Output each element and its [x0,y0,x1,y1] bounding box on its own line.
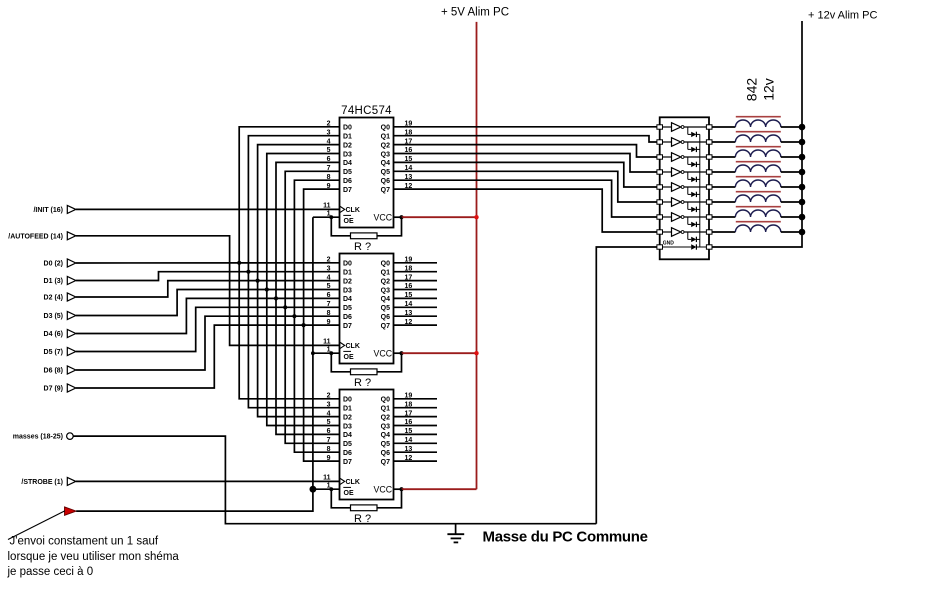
driver flyback diode 3 [688,157,700,167]
driver GND pad [657,245,663,249]
svg-text:8: 8 [327,446,331,453]
relay coil L1 [712,117,802,127]
wire data bus D2 vertical [258,145,340,417]
connector D2 (4) [44,293,76,302]
svg-text:9: 9 [327,183,331,190]
svg-text:D4: D4 [343,160,352,167]
wire U1 VCC stub [394,216,402,218]
svg-text:/STROBE (1): /STROBE (1) [21,479,63,486]
node D3 bus junction [265,287,269,291]
node +12v rail junction 4 [799,169,806,176]
svg-text:D4: D4 [343,296,352,303]
driver flyback diode 6 [688,202,700,212]
annotation pointer line [8,511,65,540]
svg-text:4: 4 [327,274,331,281]
annotation text J envoi [7,536,180,579]
connector D7 (9) [44,384,76,393]
+12v rail wire [709,21,802,247]
svg-text:R ?: R ? [354,377,371,389]
svg-text:Q5: Q5 [381,169,390,176]
svg-text:D6: D6 [343,314,352,321]
wire U3 Q1 stub [394,407,438,409]
svg-text:Q2: Q2 [381,414,390,421]
wire U3 Q0 stub [394,398,438,400]
svg-text:+ 5V Alim PC: + 5V Alim PC [441,7,509,19]
svg-text:7: 7 [327,301,331,308]
svg-text:5: 5 [327,283,331,290]
connector D6 (8) [44,366,76,375]
svg-text:D1: D1 [343,406,352,413]
svg-text:7: 7 [327,437,331,444]
resistor R2 (R ?) pullup [331,353,401,389]
relay coil L3 [712,147,802,157]
driver channel 8 input pad [657,230,663,234]
wire data bus D6 vertical [294,180,339,452]
driver channel 4 output pad [706,170,712,174]
connector D5 (7) [44,348,76,357]
node +12v rail junction 3 [799,154,806,161]
svg-text:Q6: Q6 [381,450,390,457]
node U2 VCC junction [399,351,403,355]
wire data bus D4 vertical [276,162,340,434]
svg-text:+ 12v Alim PC: + 12v Alim PC [808,10,877,22]
wire U1 VCC to +5V net [402,216,477,218]
node +12v rail junction 5 [799,184,806,191]
svg-text:/AUTOFEED (14): /AUTOFEED (14) [8,233,63,240]
driver flyback diode 1 [688,127,700,137]
ground symbol [447,524,464,543]
wire U2 VCC stub [394,352,402,354]
svg-text:6: 6 [327,292,331,299]
svg-text:2: 2 [327,121,331,128]
svg-text:D2: D2 [343,414,352,421]
connector D4 (6) [44,330,76,339]
resistor R1 (R ?) pullup [331,217,401,253]
driver buffer 6 [663,198,707,207]
svg-text:OE: OE [344,218,354,225]
node OE bus at U2 [311,351,315,355]
relay coil L8 [712,222,802,232]
svg-text:3: 3 [327,265,331,272]
svg-text:CLK: CLK [346,207,360,214]
relay coil L7 [712,207,802,217]
node +12v rail junction 8 [799,229,806,236]
svg-text:6: 6 [327,428,331,435]
svg-text:Q7: Q7 [381,323,390,330]
svg-text:Q4: Q4 [381,432,390,439]
svg-text:OE: OE [344,354,354,361]
wire U1 Q3 to driver input 4 [394,154,658,173]
node +5V rail junction U2 [474,351,478,355]
wire U3 VCC to +5V net [402,488,477,490]
svg-text:4: 4 [327,410,331,417]
svg-text:Q0: Q0 [381,125,390,132]
wire U3 Q4 stub [394,433,438,435]
driver channel 8 output pad [706,230,712,234]
svg-text:D6 (8): D6 (8) [44,368,63,375]
svg-text:D7: D7 [343,459,352,466]
svg-text:11: 11 [323,338,331,345]
svg-text:Q4: Q4 [381,296,390,303]
svg-text:9: 9 [327,455,331,462]
svg-text:7: 7 [327,165,331,172]
svg-text:D7: D7 [343,323,352,330]
connector D0 (2) [44,259,76,268]
svg-text:D3: D3 [343,287,352,294]
svg-text:4: 4 [327,138,331,145]
wire data bus D5 vertical [285,171,339,443]
svg-text:D3: D3 [343,423,352,430]
driver channel 3 output pad [706,155,712,159]
wire /STROBE to U3 CLK [76,480,340,482]
svg-text:D5: D5 [343,169,352,176]
svg-text:VCC: VCC [374,213,393,223]
svg-text:8: 8 [327,174,331,181]
svg-text:Q6: Q6 [381,178,390,185]
wire U2 Q3 stub [394,289,438,291]
node OE bus at U3 (big junction) [310,486,317,493]
svg-text:D1: D1 [343,134,352,141]
svg-text:Q0: Q0 [381,397,390,404]
wire OE control line [76,217,313,511]
svg-text:Q1: Q1 [381,134,390,141]
driver channel 3 input pad [657,155,663,159]
svg-text:VCC: VCC [374,485,393,495]
driver flyback diode 4 [688,172,700,182]
svg-text:D0: D0 [343,397,352,404]
wire U3 Q6 stub [394,451,438,453]
wire D6 port to U2 D6 [76,316,340,370]
driver U4 octal buffer box [660,117,709,259]
svg-text:GND: GND [663,241,675,247]
svg-text:5: 5 [327,147,331,154]
wire U1 Q6 to driver input 7 [394,180,658,217]
driver buffer 5 [663,183,707,192]
svg-text:D2: D2 [343,278,352,285]
wire D5 port to U2 D5 [76,307,340,351]
IC U3 74HC574 [323,390,412,500]
node +12v rail junction 2 [799,139,806,146]
node D1 bus junction [246,270,250,274]
svg-text:je passe ceci à 0: je passe ceci à 0 [7,566,94,578]
driver COM output pad [706,245,712,249]
svg-text:Q3: Q3 [381,151,390,158]
svg-text:CLK: CLK [346,343,360,350]
wire U2 Q4 stub [394,297,438,299]
wire OE bus to U2 OE pin [313,352,340,354]
driver substrate diode [663,244,707,249]
svg-text:J'envoi constament un 1 sauf: J'envoi constament un 1 sauf [10,536,159,548]
wire D1 port to U2 D1 [76,272,340,281]
node D6 bus junction [292,314,296,318]
wire D7 port to U2 D7 [76,325,340,388]
wire data bus D1 vertical [248,136,339,408]
wire U1 Q7 to driver input 8 [394,189,658,232]
node U1 VCC junction [399,215,403,219]
driver buffer 3 [663,153,707,162]
wire U1 Q0 to driver input 1 [394,126,658,128]
svg-text:D0: D0 [343,125,352,132]
driver buffer 4 [663,168,707,177]
svg-text:3: 3 [327,129,331,136]
svg-text:2: 2 [327,393,331,400]
IC U2 74HC574 [323,254,412,364]
driver channel 2 output pad [706,140,712,144]
svg-text:8: 8 [327,310,331,317]
wire U2 Q7 stub [394,324,438,326]
driver buffer 7 [663,213,707,222]
node U1 OE pullup tap [329,215,333,219]
driver channel 6 input pad [657,200,663,204]
wire D4 port to U2 D4 [76,298,340,333]
connector masses (18-25) [13,433,73,441]
wire U2 Q2 stub [394,280,438,282]
wire U2 VCC to +5V net [402,352,477,354]
node D7 bus junction [302,323,306,327]
wire driver GND to ground rail [596,247,658,524]
svg-text:D6: D6 [343,178,352,185]
driver flyback diode 7 [688,217,700,227]
relay coil L6 [712,192,802,202]
svg-text:Q3: Q3 [381,287,390,294]
node +5V rail junction U1 [474,215,478,219]
node D5 bus junction [283,305,287,309]
svg-text:Q7: Q7 [381,459,390,466]
svg-text:D4: D4 [343,432,352,439]
wire U2 Q1 stub [394,271,438,273]
svg-text:Q6: Q6 [381,314,390,321]
driver buffer 8 [663,228,707,237]
wire U1 Q5 to driver input 6 [394,171,658,202]
+5V net vertical wire [476,22,478,489]
svg-text:Q2: Q2 [381,142,390,149]
driver common diode rail [699,134,701,247]
driver channel 7 output pad [706,215,712,219]
wire U2 Q5 stub [394,306,438,308]
svg-text:D7 (9): D7 (9) [44,386,63,393]
driver flyback diode 2 [688,142,700,152]
relay coil L5 [712,177,802,187]
driver channel 6 output pad [706,200,712,204]
svg-text:R ?: R ? [354,513,371,525]
driver buffer 2 [663,138,707,147]
svg-text:CLK: CLK [346,479,360,486]
node +12v rail junction 7 [799,214,806,221]
driver channel 1 input pad [657,125,663,129]
wire U1 Q2 to driver input 3 [394,145,658,157]
svg-text:9: 9 [327,319,331,326]
svg-text:842: 842 [744,78,760,102]
wire D0 port to U2 D0 [76,262,340,264]
wire U2 Q0 stub [394,262,438,264]
wire U1 Q4 to driver input 5 [394,162,658,187]
node U3 VCC junction [399,487,403,491]
wire data bus D7 vertical [304,189,340,461]
svg-text:D3: D3 [343,151,352,158]
node +12v rail junction 1 [799,124,806,131]
svg-text:2: 2 [327,257,331,264]
wire U3 Q3 stub [394,425,438,427]
svg-text:Q1: Q1 [381,406,390,413]
svg-text:lorsque je veu utiliser mon sh: lorsque je veu utiliser mon shéma [8,551,180,563]
svg-text:D1 (3): D1 (3) [44,278,63,285]
svg-text:11: 11 [323,474,331,481]
node U3 OE pullup tap [329,487,333,491]
connector /AUTOFEED (14) [8,232,76,241]
driver flyback diode 8 [688,232,700,242]
svg-text:R ?: R ? [354,241,371,253]
resistor R3 (R ?) pullup [331,489,401,525]
svg-text:D7: D7 [343,187,352,194]
driver buffer 1 [663,123,707,132]
svg-text:D5: D5 [343,441,352,448]
node D4 bus junction [274,296,278,300]
svg-text:3: 3 [327,401,331,408]
connector /STROBE (1) [21,477,75,486]
wire U3 Q5 stub [394,442,438,444]
svg-text:D2: D2 [343,142,352,149]
svg-text:Q7: Q7 [381,187,390,194]
svg-text:Q0: Q0 [381,261,390,268]
driver channel 5 output pad [706,185,712,189]
svg-text:D1: D1 [343,270,352,277]
svg-text:D0: D0 [343,261,352,268]
svg-text:D5 (7): D5 (7) [44,349,63,356]
connector D1 (3) [44,277,76,286]
svg-text:/INIT (16): /INIT (16) [33,207,63,214]
node D2 bus junction [256,279,260,283]
relay coil L2 [712,132,802,142]
wire U3 VCC stub [394,488,402,490]
svg-text:D0 (2): D0 (2) [44,261,63,268]
wire data bus D3 vertical [267,154,340,426]
svg-text:74HC574: 74HC574 [341,105,392,117]
svg-text:12v: 12v [761,78,777,101]
driver channel 5 input pad [657,185,663,189]
wire U3 Q7 stub [394,460,438,462]
svg-text:Q2: Q2 [381,278,390,285]
svg-text:11: 11 [323,202,331,209]
svg-text:Masse du PC Commune: Masse du PC Commune [483,529,648,546]
svg-text:D4 (6): D4 (6) [44,331,63,338]
wire U3 Q2 stub [394,416,438,418]
driver channel 1 output pad [706,125,712,129]
svg-text:Q3: Q3 [381,423,390,430]
svg-text:D6: D6 [343,450,352,457]
svg-text:D2 (4): D2 (4) [44,295,63,302]
svg-text:Q5: Q5 [381,305,390,312]
wire OE bus to U1 OE pin [313,216,340,218]
IC U1 74HC574 [323,105,412,228]
wire OE bus to U3 OE pin [313,488,340,490]
svg-text:VCC: VCC [374,349,393,359]
connector /INIT (16) [33,205,75,214]
driver channel 4 input pad [657,170,663,174]
node U2 OE pullup tap [329,351,333,355]
wire data bus D0 vertical [239,127,339,399]
svg-text:masses (18-25): masses (18-25) [13,434,63,441]
wire D3 port to U2 D3 [76,290,340,316]
OE control input red arrow [65,507,77,515]
svg-text:OE: OE [344,490,354,497]
driver channel 7 input pad [657,215,663,219]
node +12v rail junction 6 [799,199,806,206]
svg-text:6: 6 [327,156,331,163]
wire masses to ground rail [73,436,596,524]
relay coil L4 [712,162,802,172]
svg-text:5: 5 [327,419,331,426]
svg-text:Q1: Q1 [381,270,390,277]
wire U1 Q1 to driver input 2 [394,136,658,142]
svg-text:D5: D5 [343,305,352,312]
svg-text:D3 (5): D3 (5) [44,313,63,320]
relay value label 842 12v [744,78,777,102]
driver channel 2 input pad [657,140,663,144]
wire /AUTOFEED to U2 CLK [76,236,340,346]
node D0 bus junction [237,261,241,265]
svg-text:Q5: Q5 [381,441,390,448]
connector D3 (5) [44,312,76,321]
wire U2 Q6 stub [394,315,438,317]
driver flyback diode 5 [688,187,700,197]
wire D2 port to U2 D2 [76,281,340,297]
wire /INIT to U1 CLK [76,208,340,210]
svg-text:Q4: Q4 [381,160,390,167]
